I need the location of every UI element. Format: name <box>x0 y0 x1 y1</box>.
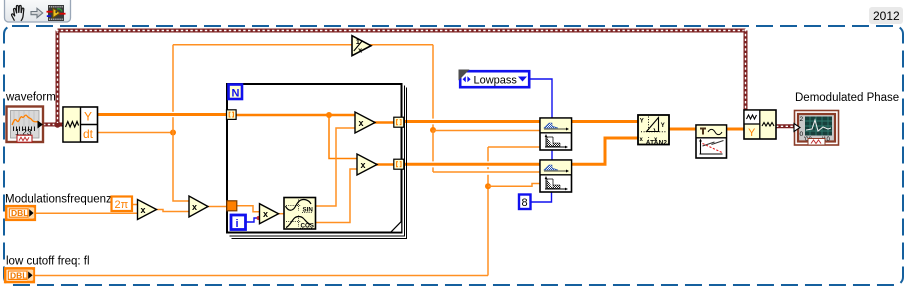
wire: multiply5 out to loop tunnel <box>207 206 227 208</box>
svg-text:Demodulated Phase: Demodulated Phase <box>795 92 899 104</box>
butterworth filter 2 <box>540 160 572 192</box>
get waveform components node <box>63 107 98 142</box>
svg-text:dt: dt <box>83 127 94 141</box>
multiply U5 (2pi x f) <box>138 200 157 220</box>
coercion dot <box>257 216 261 220</box>
wire: modulationsfrequenz to multiply4 <box>35 212 138 214</box>
junction dot (dynamic wire) <box>54 121 60 127</box>
svg-text:Lowpass: Lowpass <box>474 74 518 86</box>
svg-text:x: x <box>141 205 146 215</box>
wire: inside loop horizontal to multiply1 <box>236 114 356 116</box>
wire: tunnel2 thick to filter2, up to atan2 <box>404 138 638 164</box>
svg-text:waveform: waveform <box>5 92 56 104</box>
wire: fs to filter2 <box>433 171 541 173</box>
wire: tunnel to multiply3 <box>237 206 260 212</box>
wire: cos out up to multiply2 <box>315 169 358 223</box>
lowpass enum constant <box>459 70 530 88</box>
svg-text:DBL: DBL <box>11 208 28 218</box>
junction dot fs <box>430 127 436 133</box>
svg-text:2π: 2π <box>115 199 129 211</box>
sincos U4 <box>284 198 316 230</box>
DBL terminal 1 <box>6 206 35 220</box>
junction dot low cutoff <box>485 183 491 189</box>
wire: atan2 out to unwrap <box>668 128 696 131</box>
wire: dt thin <box>97 132 173 134</box>
i badge <box>231 215 246 230</box>
junction dot in loop <box>326 112 332 118</box>
output tunnel 2 <box>394 159 404 169</box>
waveform control icon <box>7 107 44 143</box>
svg-text:Y: Y <box>748 127 756 139</box>
svg-text:ATAN2: ATAN2 <box>646 139 668 146</box>
folded corner <box>391 221 402 232</box>
multiply U2 (inside loop bottom) <box>357 154 377 175</box>
wire: tunnel1 thick to atan2 (filters drawn on top) <box>404 120 638 123</box>
wire: fs to filter1 <box>433 130 541 132</box>
wire: multiply1 out to tunnel <box>374 121 394 123</box>
input tunnel (scalar, solid) <box>227 201 237 211</box>
multiply U3 (phase step x i) <box>260 204 279 224</box>
svg-text:low cutoff freq: fl: low cutoff freq: fl <box>6 256 90 268</box>
wire: fs vertical down to filter2 (crossing gap) <box>432 130 434 161</box>
multiply U6 (x dt) <box>189 196 208 217</box>
svg-text:Y: Y <box>84 110 92 124</box>
wire: dt vertical down to multiply5 <box>173 133 189 202</box>
DBL terminal 2 <box>5 268 34 282</box>
build waveform node <box>744 110 776 139</box>
2012 badge <box>869 7 903 24</box>
wire: right vertical down to build-waveform <box>744 29 748 110</box>
N badge <box>229 85 243 100</box>
svg-text:x: x <box>359 118 364 128</box>
wire: unwrap out to build waveform <box>726 128 744 131</box>
wire: junction up left vertical <box>56 31 60 125</box>
svg-text:x: x <box>361 160 366 170</box>
cursor arrow icon <box>31 8 43 17</box>
multiply U1 (inside loop top) <box>355 112 375 133</box>
svg-text:2: 2 <box>800 116 804 123</box>
wire: Y thick to loop tunnel <box>97 113 227 116</box>
wire: multiply4 out to multiply5 <box>157 210 190 212</box>
svg-text:Modulationsfrequenz: Modulationsfrequenz <box>5 194 112 206</box>
wire: multiply3 out to sincos <box>278 213 285 215</box>
butterworth filter 1 <box>540 118 572 150</box>
wire: low cutoff branch to filter2 <box>488 184 541 187</box>
output tunnel 1 <box>394 117 404 127</box>
wire: 2pi out <box>133 204 138 206</box>
svg-text:i: i <box>236 218 239 230</box>
svg-text:N: N <box>232 88 240 100</box>
svg-text:Y: Y <box>661 123 665 129</box>
svg-text:x: x <box>192 202 197 212</box>
for-loop frame with stacked shadow <box>227 84 407 239</box>
wire: low cutoff freq long bottom <box>35 275 488 277</box>
unwrap phase node <box>696 125 727 158</box>
atan2 node <box>638 115 669 146</box>
svg-text:x: x <box>263 209 268 219</box>
reciprocal 1/x <box>352 36 371 56</box>
wire: i to multiply3 <box>246 218 257 222</box>
toolbar panel <box>5 0 71 22</box>
svg-text:8: 8 <box>522 197 528 209</box>
wire: 8 constant to filter2 order <box>531 191 552 202</box>
wire: reciprocal out to right vertical <box>370 44 433 46</box>
demodulated phase indicator <box>794 111 839 146</box>
wire: long top horizontal <box>56 29 746 33</box>
junction dot dt <box>170 130 176 136</box>
svg-text:0: 0 <box>800 131 804 138</box>
wire: dt vertical up (with crossing gap) <box>172 45 174 112</box>
wire: low cutoff to filter1 <box>488 146 541 148</box>
2pi constant <box>112 197 133 212</box>
wire: branch down to multiply2 <box>329 115 358 159</box>
wire: multiply2 out to tunnel <box>376 163 394 165</box>
wire: filter1 to filter2 type <box>551 150 553 161</box>
VI snippet icon <box>47 5 66 21</box>
wire: low cutoff vertical up (with gaps) <box>487 186 489 275</box>
wire: lowpass enum to filter1 <box>530 79 552 119</box>
input tunnel (indexing) <box>227 110 237 120</box>
svg-text:DBL: DBL <box>10 270 27 280</box>
hand tool icon <box>12 6 24 21</box>
8 constant <box>519 195 531 210</box>
wire: waveform control to junction <box>43 123 63 127</box>
wire: top run to reciprocal <box>173 44 352 46</box>
svg-text:2012: 2012 <box>873 9 900 23</box>
svg-text:Y: Y <box>640 119 644 125</box>
wire: sin out up to multiply1 <box>315 128 356 206</box>
wire: build-waveform to indicator <box>776 124 795 128</box>
